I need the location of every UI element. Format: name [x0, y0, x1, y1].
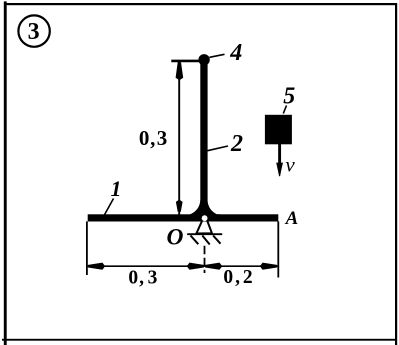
svg-text:3: 3	[148, 268, 158, 289]
svg-text:0: 0	[223, 267, 233, 288]
label O	[167, 225, 184, 251]
hinge dot 4 at top of rod	[198, 54, 209, 65]
label 0,3 horizontal	[128, 268, 157, 289]
ground hatch stroke c	[213, 236, 220, 244]
rod 2 (vertical)	[200, 58, 207, 215]
label 2	[230, 131, 243, 157]
leader line to label 4	[210, 54, 225, 57]
svg-text:,: ,	[139, 268, 144, 289]
arrow left end	[88, 263, 105, 270]
block 5 (falling load)	[265, 115, 292, 145]
label v	[285, 153, 295, 177]
leader line to label 5	[283, 106, 286, 114]
problem number circle 3	[18, 15, 49, 46]
top tick line of vertical dimension	[171, 60, 200, 63]
ground hatch line	[187, 233, 222, 235]
bar over triangle apex redrawn	[190, 214, 220, 221]
vertical dimension line 0,3	[176, 61, 184, 215]
svg-text:1: 1	[111, 176, 122, 201]
svg-text:3: 3	[28, 19, 40, 45]
beam 1 (horizontal bar)	[88, 214, 279, 221]
label 0,2	[223, 267, 252, 288]
velocity arrow v	[276, 144, 283, 176]
label 1	[111, 176, 122, 201]
svg-text:0: 0	[128, 268, 138, 289]
svg-text:2: 2	[230, 131, 243, 157]
svg-text:A: A	[285, 208, 299, 229]
ground hatch stroke b	[202, 236, 209, 245]
extension line below beam right end	[277, 221, 279, 277]
svg-text:5: 5	[283, 84, 295, 110]
horizontal dimension line	[87, 265, 278, 267]
arrow middle pointing right	[187, 263, 204, 270]
svg-text:,: ,	[150, 126, 155, 150]
extension line below pivot (dashed)	[204, 246, 206, 273]
arrow right end	[260, 263, 277, 270]
support triangle at O	[196, 215, 212, 234]
label 0,3 vertical	[139, 126, 167, 150]
ground hatch stroke a	[191, 236, 199, 245]
pivot flare at rod base	[189, 200, 219, 215]
pin hole at O	[202, 215, 208, 221]
svg-text:v: v	[285, 153, 295, 177]
label A	[285, 208, 299, 229]
svg-text:,: ,	[235, 267, 240, 288]
label 4	[229, 40, 242, 66]
leader line to label 2	[208, 146, 229, 151]
leader line to label 1	[105, 199, 114, 215]
arrow middle pointing left	[205, 263, 222, 270]
svg-text:3: 3	[157, 126, 168, 150]
extension line below beam left end	[86, 221, 88, 275]
svg-text:4: 4	[229, 40, 242, 66]
svg-text:0: 0	[139, 126, 150, 150]
label 5	[283, 84, 295, 110]
svg-text:2: 2	[243, 267, 253, 288]
svg-text:O: O	[167, 225, 184, 251]
